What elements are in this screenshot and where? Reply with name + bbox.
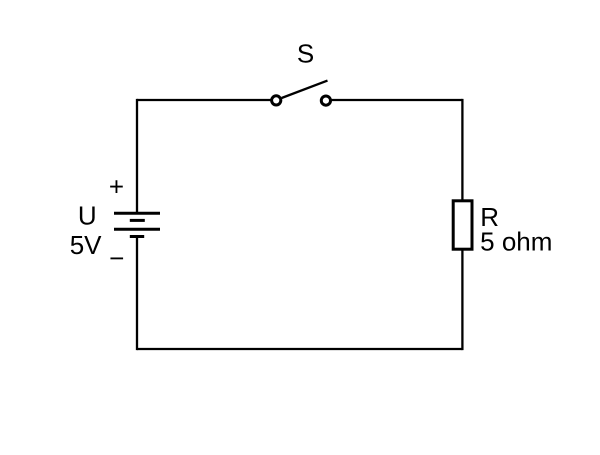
wire left vertical upper — [136, 99, 138, 213]
svg-text:S: S — [297, 39, 314, 69]
svg-text:U: U — [78, 201, 97, 231]
svg-text:+: + — [109, 172, 124, 202]
svg-text:5V: 5V — [70, 230, 102, 260]
svg-text:−: − — [109, 243, 124, 273]
switch S lever — [282, 81, 328, 98]
wire bottom segment — [137, 348, 462, 350]
wire left vertical lower — [136, 237, 138, 351]
wire top-left segment — [137, 99, 271, 101]
battery U negative plate cell2 (short) — [130, 235, 144, 238]
wire top-right segment — [331, 99, 462, 101]
battery U negative plate cell1 (short) — [130, 219, 145, 222]
svg-text:5 ohm: 5 ohm — [480, 227, 552, 257]
battery U positive plate (long) — [114, 212, 160, 215]
wire right vertical upper — [461, 99, 463, 200]
resistor R body — [453, 201, 472, 249]
switch S right contact — [321, 96, 330, 105]
wire right vertical lower — [461, 249, 463, 350]
switch S left contact — [272, 96, 281, 105]
battery U positive plate cell2 (long) — [114, 228, 160, 231]
